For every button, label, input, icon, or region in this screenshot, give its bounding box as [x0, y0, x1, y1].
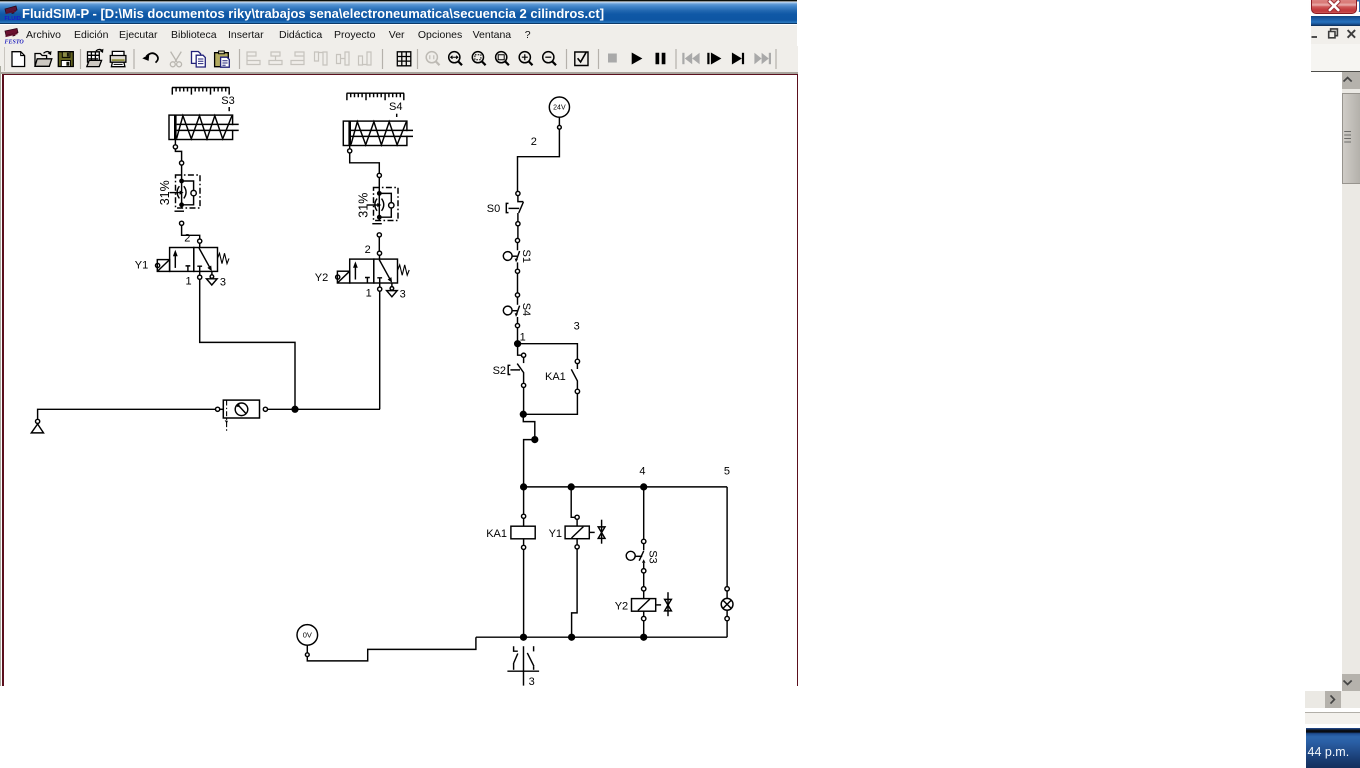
junction dot [515, 341, 521, 347]
KA1 relay coil [511, 490, 535, 637]
svg-text:FLUID: FLUID [5, 16, 21, 22]
svg-text:3: 3 [400, 289, 406, 301]
top bus of coil rungs [524, 486, 728, 488]
icon: cut (disabled) [170, 52, 181, 67]
wire S0 to S1 [517, 226, 519, 239]
FESTO icon (menu bar) [2, 26, 24, 45]
svg-text:Y2: Y2 [615, 601, 628, 613]
svg-text:S1: S1 [520, 250, 532, 263]
Y2 solenoid coil [632, 573, 672, 637]
svg-text:24V: 24V [553, 105, 566, 112]
wire cylinder2 to throttle [349, 146, 351, 149]
svg-text:5: 5 [724, 466, 730, 478]
icon: zoom 1:1 (disabled) [426, 52, 439, 66]
junction dot below S2 [520, 411, 526, 417]
S1 limit switch contact [503, 238, 519, 273]
icon: new document [12, 52, 25, 67]
minimize glyph [1312, 36, 1318, 38]
valve Y2 3/2-way solenoid [336, 259, 410, 283]
tick below fc2 [372, 223, 382, 225]
Y1 solenoid coil [565, 490, 605, 637]
KA1 NO contact [523, 359, 579, 414]
icon: save floppy [58, 52, 73, 67]
icon: new circuit window [88, 52, 100, 63]
wire Y1 port1 to supply junction [200, 279, 295, 409]
svg-text:31%: 31% [158, 180, 172, 205]
indicator lamp [721, 487, 733, 637]
Y2 port 3 + exhaust [391, 283, 393, 287]
one-way flow control 31% (left) [170, 175, 201, 208]
S0 NC pushbutton [506, 191, 523, 225]
tick below fc1 [175, 210, 185, 212]
svg-text:S4: S4 [520, 303, 532, 316]
icon: zoom fit dashed [472, 52, 483, 63]
svg-text:Y2: Y2 [315, 272, 328, 284]
bottom bus [476, 636, 727, 638]
svg-text:31%: 31% [356, 193, 370, 218]
Y2 port 1 [379, 283, 381, 287]
compressed air source triangle [31, 409, 215, 433]
port 2 circle Y1 [198, 239, 202, 243]
svg-text:KA1: KA1 [486, 528, 507, 540]
svg-text:2: 2 [184, 233, 190, 245]
icon: zoom out [543, 52, 554, 63]
S2 NO pushbutton [508, 344, 526, 415]
cylinder 1 (single-acting, spring return) [169, 115, 239, 139]
svg-text:3: 3 [220, 276, 226, 288]
wire cylinder1 to throttle [174, 140, 176, 145]
icon: zoom rect [496, 52, 507, 63]
wire S4 to junction [517, 328, 519, 344]
FESTO icon (title bar) [2, 3, 22, 22]
svg-text:S3: S3 [646, 550, 658, 563]
zigzag wire to bus [523, 414, 535, 439]
icon: step forward [707, 53, 721, 65]
toolbar icons SVG [0, 46, 798, 73]
icon: copy [192, 52, 206, 68]
valve Y1 3/2-way solenoid [156, 248, 230, 272]
wire 24V down to S0 [518, 129, 560, 191]
icon: zoom width [449, 52, 460, 63]
wire S1 to S4 [517, 273, 519, 293]
left groove [4, 47, 6, 71]
icon: rewind (disabled) [682, 53, 699, 64]
cylinder 2 (single-acting, spring return) [343, 121, 413, 145]
svg-text:2: 2 [531, 136, 537, 148]
icon: fast forward (disabled) [754, 53, 771, 64]
one-way flow control 31% (right) [367, 188, 398, 221]
svg-text:S3: S3 [221, 95, 234, 107]
svg-text:4: 4 [639, 466, 645, 478]
icon: print [112, 51, 124, 55]
port 2 circle Y2 [377, 251, 381, 255]
KA1 contact overview (below bus) [507, 646, 539, 685]
scrollbar grips [1344, 132, 1351, 143]
icon: open folder [35, 59, 52, 67]
distance ruler S3 [172, 88, 230, 95]
icon: play to end [732, 53, 744, 65]
svg-text:0V: 0V [303, 631, 312, 640]
chrome glyphs SVG [1300, 0, 1360, 768]
svg-text:S0: S0 [487, 203, 500, 215]
svg-text:FESTO: FESTO [5, 40, 25, 46]
Y1 port 3 + exhaust [211, 271, 213, 274]
junction supply [292, 406, 298, 412]
wire fc1 to valve Y1 [180, 221, 184, 225]
icon: play [632, 53, 643, 65]
icon: paste [215, 53, 229, 67]
close glyph (child) [1348, 30, 1356, 38]
icon: pause [656, 53, 666, 64]
svg-text:2: 2 [365, 244, 371, 256]
svg-text:1: 1 [186, 275, 192, 287]
air service unit [216, 400, 381, 431]
svg-text:3: 3 [574, 321, 580, 333]
align icons (disabled) [247, 52, 371, 65]
0V supply [297, 625, 476, 661]
svg-text:1: 1 [366, 287, 372, 299]
icon: check box [575, 52, 588, 66]
restore glyph [1331, 29, 1338, 36]
icon: undo [146, 53, 158, 62]
close X of main window [1330, 2, 1339, 11]
svg-text:S2: S2 [493, 365, 506, 377]
branch to KA1 contact [518, 344, 578, 360]
icon: zoom in [519, 52, 530, 63]
wire fc2 to valve Y2 [377, 233, 381, 237]
S4 limit switch contact [503, 293, 519, 328]
leader dash under S3 [228, 107, 230, 111]
Y1 port 1 [199, 271, 201, 275]
wire Y2 port1 down to supply line [379, 291, 381, 409]
svg-text:S4: S4 [389, 101, 402, 113]
leader dash under S4 [396, 114, 398, 117]
svg-text:Y1: Y1 [549, 528, 562, 540]
separators [81, 49, 777, 69]
svg-text:Y1: Y1 [135, 260, 148, 272]
scrollbar right arrow [1331, 695, 1335, 703]
icon: grid [397, 52, 411, 66]
svg-text:KA1: KA1 [545, 371, 566, 383]
scrollbar up arrow [1344, 78, 1352, 82]
S3 limit switch contact (electrical) [626, 490, 646, 573]
scrollbar down arrow [1344, 681, 1352, 685]
svg-text:3: 3 [529, 676, 535, 688]
24V supply [549, 97, 569, 129]
distance ruler S4 [347, 93, 405, 100]
icon: stop (disabled) [608, 54, 617, 63]
